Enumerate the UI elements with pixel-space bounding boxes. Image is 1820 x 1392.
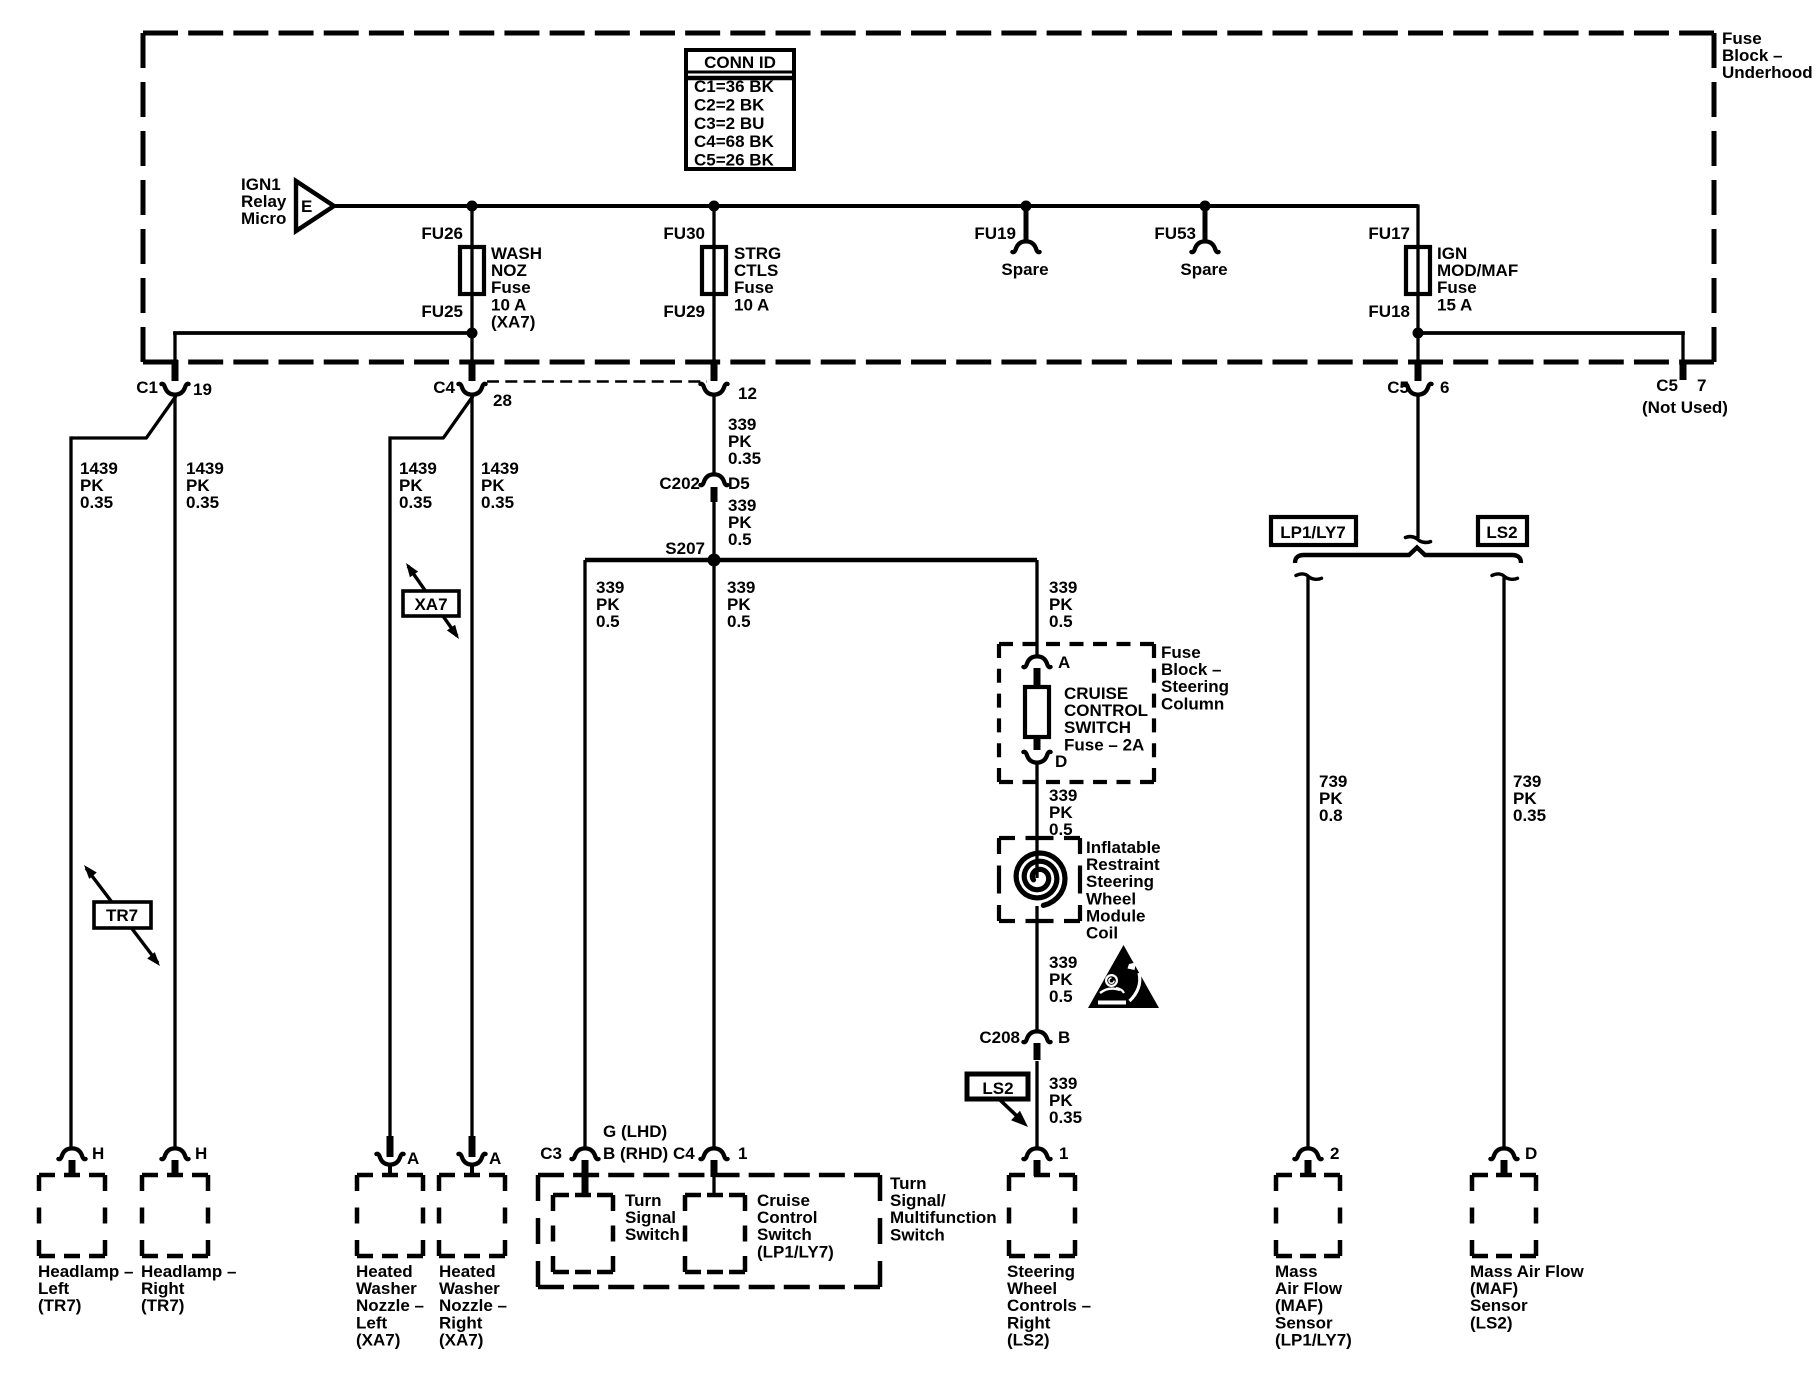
svg-text:Micro: Micro [241, 209, 286, 228]
svg-text:D5: D5 [728, 474, 750, 493]
svg-text:H: H [195, 1144, 207, 1163]
connector MAF LS2 pin D [1490, 1148, 1517, 1159]
spare fuse socket FU19 [1024, 206, 1029, 241]
svg-text:CONN ID: CONN ID [704, 53, 776, 72]
connector cruise switch pin 1 [700, 1148, 727, 1159]
heated washer nozzle - right box [439, 1173, 505, 1178]
svg-text:C5: C5 [1656, 376, 1678, 395]
LS2 tag (split) [1478, 517, 1527, 545]
mass air flow sensor (LP1/LY7) box [1276, 1173, 1340, 1178]
wire 739 PK 0.35 (LS2 branch) [1492, 574, 1518, 579]
svg-text:(TR7): (TR7) [38, 1296, 81, 1315]
fuse block - underhood boundary [143, 31, 1714, 36]
svg-text:G (LHD): G (LHD) [603, 1122, 667, 1141]
wire FU25 junction to C4 [470, 333, 473, 362]
wire: ignition bus [334, 204, 1418, 208]
steering wheel controls - right box [1009, 1173, 1075, 1178]
svg-text:Underhood: Underhood [1722, 63, 1813, 82]
connector steering wheel controls pin 1 [1023, 1148, 1050, 1159]
svg-text:C4: C4 [673, 1144, 695, 1163]
svg-text:(Not Used): (Not Used) [1642, 398, 1728, 417]
wire S207 to C3 [583, 560, 586, 1147]
svg-text:C4=68 BK: C4=68 BK [694, 132, 775, 151]
svg-text:0.8: 0.8 [1319, 806, 1343, 825]
connector C3 pin B/G [571, 1148, 598, 1159]
wire 339 PK 0.5 to S207 [712, 502, 715, 560]
svg-text:Column: Column [1161, 694, 1224, 713]
connector headlamp left pin H [58, 1148, 85, 1159]
svg-text:FU29: FU29 [663, 302, 705, 321]
svg-text:0.5: 0.5 [1049, 987, 1073, 1006]
svg-text:FU25: FU25 [421, 302, 463, 321]
svg-text:C1=36 BK: C1=36 BK [694, 77, 775, 96]
TR7 option tag [86, 868, 158, 963]
svg-text:XA7: XA7 [414, 595, 447, 614]
svg-text:(LP1/LY7): (LP1/LY7) [757, 1242, 834, 1261]
wire 1439 PK to washer right [470, 396, 473, 1152]
svg-text:0.35: 0.35 [186, 493, 219, 512]
svg-text:A: A [1058, 653, 1070, 672]
fuse FU30/FU29 STRG CTLS 10A [702, 247, 726, 294]
SRS airbag warning symbol [1088, 945, 1159, 1008]
wire FU18 to C5-7 [1418, 331, 1685, 335]
svg-text:6: 6 [1440, 378, 1449, 397]
node: junction FU25 out [467, 328, 478, 339]
svg-text:A: A [489, 1149, 501, 1168]
headlamp - left box [39, 1173, 105, 1178]
wire to C1 [173, 331, 472, 335]
svg-text:0.5: 0.5 [1049, 612, 1073, 631]
option split brace [1295, 548, 1521, 564]
wire 339 PK 0.35 to steering wheel controls [1035, 1061, 1038, 1147]
wire FU30 drop [712, 206, 715, 247]
svg-text:0.35: 0.35 [728, 449, 761, 468]
svg-text:Spare: Spare [1001, 260, 1048, 279]
svg-text:A: A [407, 1149, 419, 1168]
splice S207 [708, 554, 721, 567]
connector washer right pin A [458, 1154, 485, 1165]
wire 339 PK 0.5 to coil [1035, 763, 1038, 878]
wire 1439 PK to headlamp right [173, 396, 176, 1147]
svg-text:FU19: FU19 [974, 224, 1016, 243]
svg-text:LP1/LY7: LP1/LY7 [1280, 523, 1346, 542]
svg-text:C2=2 BK: C2=2 BK [694, 95, 765, 114]
svg-text:Switch: Switch [625, 1225, 680, 1244]
wire FU29 to connector 12 [712, 294, 715, 362]
svg-text:D: D [1055, 752, 1067, 771]
node: bus junction FU30 [709, 201, 720, 212]
cruise control switch inner box [685, 1193, 745, 1198]
svg-text:FU53: FU53 [1154, 224, 1196, 243]
connector C208 pin B [1023, 1031, 1050, 1042]
svg-text:C208: C208 [979, 1028, 1020, 1047]
svg-text:TR7: TR7 [106, 906, 138, 925]
svg-text:0.5: 0.5 [727, 612, 751, 631]
connector headlamp right pin H [161, 1148, 188, 1159]
svg-text:12: 12 [738, 384, 757, 403]
wire 339 PK 0.35 [712, 396, 715, 473]
svg-text:(LS2): (LS2) [1007, 1330, 1050, 1349]
svg-text:C1: C1 [136, 378, 158, 397]
svg-text:0.35: 0.35 [1049, 1108, 1082, 1127]
svg-text:0.35: 0.35 [399, 493, 432, 512]
node: junction FU18 out [1413, 328, 1424, 339]
wire S207 to steering column fuse [1035, 560, 1038, 655]
connector fuse block pin 12 [711, 360, 718, 381]
svg-text:FU30: FU30 [663, 224, 705, 243]
connector D (steering column fuse) [1034, 737, 1041, 750]
node: bus junction FU19 [1021, 201, 1032, 212]
svg-text:(XA7): (XA7) [356, 1330, 400, 1349]
svg-text:1: 1 [738, 1144, 747, 1163]
fuse FU17/FU18 IGN MOD/MAF 15A [1406, 247, 1430, 294]
wire FU26 drop [470, 206, 473, 247]
fuse CRUISE CONTROL SWITCH 2A [1025, 687, 1049, 737]
svg-text:C5: C5 [1387, 378, 1409, 397]
svg-text:FU26: FU26 [421, 224, 463, 243]
svg-text:0.35: 0.35 [1513, 806, 1546, 825]
node: bus junction FU26 [467, 201, 478, 212]
XA7 option tag [408, 566, 457, 636]
inflatable restraint coil boundary [999, 836, 1015, 840]
fuse FU26/FU25 WASH NOZ 10A [460, 247, 484, 294]
wire 739 PK 0.8 (LP1/LY7 branch) [1296, 574, 1322, 579]
svg-text:19: 19 [193, 380, 212, 399]
connector A (steering column fuse) [1023, 656, 1050, 667]
wire 1439 PK branch to washer left [443, 396, 473, 438]
svg-text:(XA7): (XA7) [491, 312, 535, 331]
connector MAF LP1/LY7 pin 2 [1294, 1148, 1321, 1159]
connector washer left pin A [376, 1154, 403, 1165]
svg-text:0.5: 0.5 [596, 612, 620, 631]
wire FU25 to junction [470, 294, 473, 333]
wire bus corner to FU17 [1416, 204, 1419, 247]
svg-text:H: H [92, 1144, 104, 1163]
boundary dashed link C4-12 [487, 380, 707, 383]
svg-text:Spare: Spare [1180, 260, 1227, 279]
svg-text:7: 7 [1697, 376, 1706, 395]
svg-text:(XA7): (XA7) [439, 1330, 483, 1349]
svg-text:15 A: 15 A [1437, 295, 1472, 314]
svg-text:28: 28 [493, 391, 512, 410]
relay output triangle E [296, 181, 334, 231]
svg-text:0.35: 0.35 [80, 493, 113, 512]
svg-text:0.5: 0.5 [728, 530, 752, 549]
LS2 option tag [967, 1074, 1028, 1099]
spare fuse socket FU53 [1203, 206, 1208, 241]
headlamp - right box [142, 1173, 208, 1178]
svg-text:C5=26 BK: C5=26 BK [694, 151, 775, 170]
svg-text:1: 1 [1059, 1144, 1068, 1163]
svg-text:0.35: 0.35 [481, 493, 514, 512]
connector C5 pin 7 (not used) [1680, 362, 1687, 380]
svg-text:B: B [1058, 1028, 1070, 1047]
turn signal switch inner box [553, 1193, 613, 1198]
svg-text:2: 2 [1330, 1144, 1339, 1163]
pin washer left [387, 1136, 394, 1157]
wire 739 PK from C5-6 [1416, 396, 1419, 538]
turn signal/multifunction switch box [538, 1173, 880, 1178]
svg-text:E: E [301, 197, 312, 216]
svg-text:(LS2): (LS2) [1470, 1313, 1513, 1332]
svg-text:B (RHD): B (RHD) [603, 1144, 668, 1163]
connector C202 pin D5 [700, 474, 727, 485]
LP1/LY7 tag [1271, 517, 1356, 545]
wire FU18 down [1416, 294, 1419, 362]
wire through coil [1035, 906, 1038, 1032]
mass air flow sensor (LS2) box [1472, 1173, 1536, 1178]
wire S207 down to cruise switch [712, 560, 715, 1147]
node: bus junction FU53 [1200, 201, 1211, 212]
svg-text:S207: S207 [665, 539, 705, 558]
fuse block - steering column boundary [999, 642, 1154, 646]
wire 1439 PK branch to headlamp left [146, 396, 176, 438]
connector C1 pin 19 [172, 360, 179, 381]
svg-text:FU17: FU17 [1368, 224, 1410, 243]
svg-text:C3=2 BU: C3=2 BU [694, 114, 764, 133]
svg-text:Coil: Coil [1086, 924, 1118, 943]
svg-text:Switch: Switch [890, 1225, 945, 1244]
connector C4 pin 28 [469, 360, 476, 381]
svg-text:C3: C3 [540, 1144, 562, 1163]
svg-text:Fuse – 2A: Fuse – 2A [1064, 735, 1144, 754]
svg-text:(LP1/LY7): (LP1/LY7) [1275, 1330, 1352, 1349]
svg-text:FU18: FU18 [1368, 302, 1410, 321]
wire S207 horizontal [585, 558, 1037, 563]
CONN ID table [686, 50, 794, 169]
svg-text:LS2: LS2 [982, 1079, 1013, 1098]
connector C5 pin 6 [1415, 360, 1422, 381]
heated washer nozzle - left box [357, 1173, 423, 1178]
coil L1 (clockspring spiral) [1016, 853, 1065, 905]
svg-text:LS2: LS2 [1486, 523, 1517, 542]
svg-text:D: D [1525, 1144, 1537, 1163]
svg-text:10 A: 10 A [734, 295, 769, 314]
svg-text:(TR7): (TR7) [141, 1296, 184, 1315]
svg-text:C202: C202 [659, 474, 700, 493]
pin washer right [469, 1136, 476, 1157]
svg-text:C4: C4 [433, 378, 455, 397]
